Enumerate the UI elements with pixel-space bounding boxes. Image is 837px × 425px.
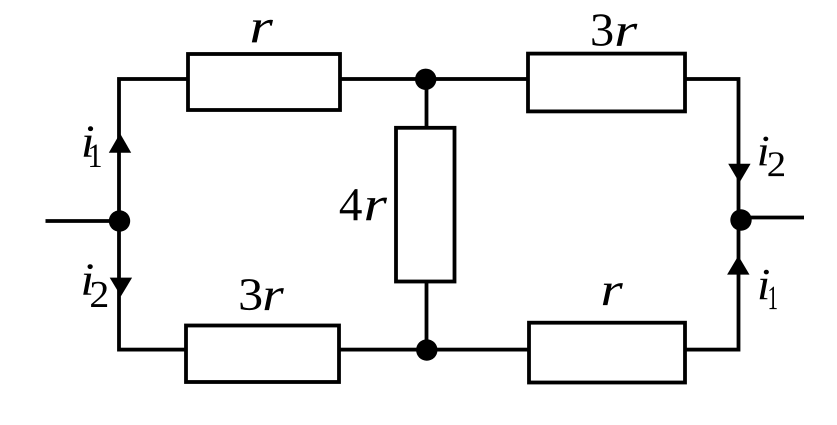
label i1 (right branch) letter i [760,270,769,300]
label i1 (left branch) letter i [84,126,94,156]
wire: right terminal stub [741,216,804,220]
node: right terminal [730,209,751,230]
resistor R1 (r, top-left) [188,54,340,110]
label i2 (right branch) subscript 2 [768,152,784,176]
label 3r (top-right resistor) digit 3 [592,14,612,46]
label r (bottom-right resistor) [603,283,623,305]
label 3r (bottom-left resistor) digit 3 [241,279,262,310]
resistor R4 (3r, bottom-left) [186,326,339,383]
arrow: i1 up, left branch [109,133,131,152]
label 4r (middle resistor) letter r [366,198,387,221]
label i2 (left branch) letter i [83,264,93,295]
label 3r (top-right resistor) letter r [617,24,638,46]
resistor R2 (3r, top-right) [528,54,685,112]
node: bottom middle junction [416,339,437,360]
arrow: i2 down, left branch [110,278,132,297]
wire: middle vertical branch [425,79,429,350]
label i2 (right branch) letter i [759,137,768,166]
resistor R3 (4r, middle) [396,128,455,282]
label 3r (bottom-left resistor) letter r [265,288,284,310]
arrow: i2 down, right branch [728,164,750,183]
node: top middle junction [415,69,436,90]
label i1 (right branch) subscript 1 [769,287,776,310]
label r (top-left resistor) [252,20,273,43]
label i2 (left branch) subscript 2 [91,282,107,307]
label i1 (left branch) subscript 1 [90,145,101,167]
node: left terminal [109,210,130,231]
label 4r (middle resistor) digit 4 [340,189,362,220]
resistor R5 (r, bottom-right) [529,323,685,383]
wire: outer loop (left vertical, top run, right vertical, bottom run) [119,79,739,350]
wire: left terminal stub [46,219,120,223]
arrow: i1 up, right branch [727,256,749,275]
